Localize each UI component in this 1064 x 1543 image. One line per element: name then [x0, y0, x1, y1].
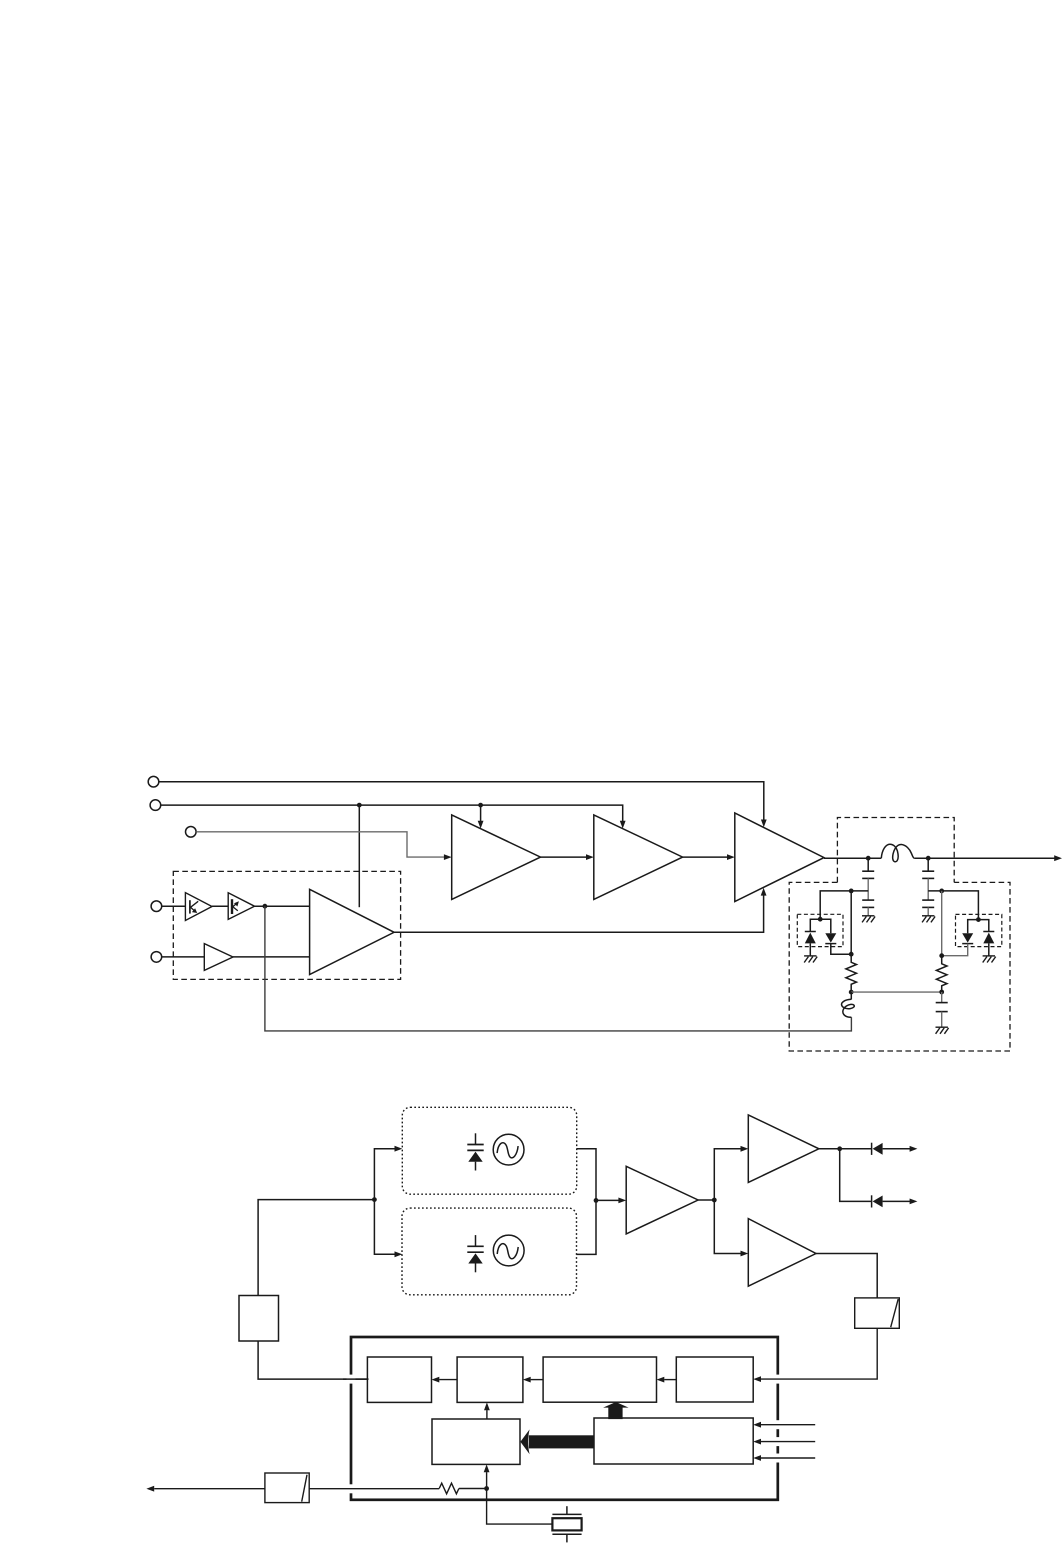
thick arrow F to E — [520, 1429, 594, 1454]
wire A4 out — [698, 1199, 714, 1201]
node N3 — [849, 889, 854, 894]
input lines into F — [753, 1422, 815, 1428]
amplifier A4 — [626, 1166, 698, 1234]
wire V1 to V2 — [212, 905, 228, 907]
wire J3 to amp M1 input — [196, 832, 451, 860]
variable amp V1 — [185, 893, 212, 921]
wire isolator2 to R3 to node — [309, 1488, 486, 1490]
arrow into amp M2 top — [620, 821, 626, 829]
diode pair top bus right — [968, 920, 989, 934]
wire J5 to V3 — [162, 956, 204, 958]
wire arrow into amp A4 — [596, 1198, 626, 1204]
ground G2 — [922, 916, 935, 923]
arrow C to B — [523, 1377, 543, 1383]
wire arrow into VCO1 — [374, 1146, 402, 1200]
diode pair dashed box DB2 — [956, 914, 1002, 946]
wire N7 down — [941, 891, 943, 956]
output arrow left — [146, 1486, 265, 1492]
terminal J3 — [186, 827, 197, 838]
wire N3 down — [850, 891, 852, 954]
block BPF (small box) — [239, 1296, 279, 1342]
terminal J5 — [151, 952, 162, 963]
preamp dashed box — [173, 871, 400, 979]
wire into block A (redrawn over gap) — [343, 1378, 369, 1380]
node N9a — [939, 953, 944, 958]
ground G3 — [804, 956, 817, 963]
resistor R3 — [439, 1483, 459, 1494]
amplifier A5 — [748, 1115, 819, 1183]
arrow E to B — [484, 1402, 490, 1419]
terminal J2 — [150, 800, 161, 811]
node N12 — [712, 1198, 717, 1203]
LPF dashed box — [837, 818, 954, 883]
block C — [543, 1357, 656, 1402]
resistor R1 — [846, 954, 857, 992]
arrow D to C — [657, 1377, 677, 1383]
border gaps (wire crossings) — [347, 1375, 783, 1494]
wire V3 to U1 lower input — [233, 956, 310, 958]
wire A5 out — [819, 1148, 872, 1150]
node N11 — [594, 1198, 599, 1203]
varactor VC2 — [467, 1235, 483, 1272]
wire arrow into amp A6 — [714, 1200, 748, 1256]
wire A6 to isolator — [816, 1254, 877, 1298]
wire N13 down — [840, 1149, 872, 1202]
summing amp U1 — [310, 889, 395, 974]
capacitor chain C2a/C2b right — [922, 858, 934, 916]
PLL IC thick box — [351, 1337, 778, 1500]
wire arrow into amp A5 — [714, 1146, 748, 1200]
wire J1 to amp M3 gain input — [159, 782, 767, 828]
arrow into E bottom — [484, 1464, 490, 1488]
node N8 — [976, 917, 981, 922]
block A — [367, 1357, 431, 1402]
diode D3 (down) — [942, 933, 974, 956]
node N9 — [939, 990, 944, 995]
capacitor chain C1a/C1b left — [862, 858, 874, 916]
diode D1 (up) — [805, 932, 816, 956]
ground G5 — [936, 1027, 949, 1034]
node on AGC line at x359 — [357, 803, 362, 808]
diode D6 output — [872, 1195, 918, 1207]
feedback wire from node to coil L2 — [265, 906, 852, 1031]
wire VCO1 out — [577, 1149, 596, 1201]
wire M2 to M3 with arrow — [683, 854, 735, 860]
block F — [594, 1418, 753, 1464]
wire arrow into VCO2 — [374, 1200, 402, 1258]
ground G4 — [983, 956, 996, 963]
wire node to amp U1 top — [358, 805, 360, 907]
isolator ISO1 — [855, 1298, 900, 1328]
wire N6 to N9 — [851, 991, 942, 993]
node on AGC line at x480 — [478, 803, 483, 808]
inductor L2 (vertical coil) — [842, 999, 855, 1017]
block D — [676, 1357, 753, 1402]
node N5 — [849, 952, 854, 957]
VCO2 dotted box — [402, 1208, 577, 1295]
amplifier M2 — [594, 815, 683, 900]
wire U1 output to M3 bottom arrow — [394, 888, 766, 933]
resistor R2 — [936, 956, 947, 992]
node N14 — [484, 1486, 489, 1491]
node N13 — [837, 1146, 842, 1151]
varactor VC1 — [467, 1133, 483, 1170]
diode D4 (up) — [983, 932, 994, 956]
wire M1 to M2 with arrow — [541, 854, 594, 860]
node N10 splitter — [372, 1197, 377, 1202]
ground G1 — [862, 916, 875, 923]
limiter dashed box — [789, 882, 1010, 1051]
amp V3 — [204, 944, 233, 971]
wire J2 AGC line — [161, 805, 623, 821]
wire isolator to block D — [753, 1328, 877, 1382]
amplifier M1 — [452, 815, 541, 900]
oscillator OSC1 — [493, 1134, 524, 1165]
node N4 — [818, 917, 823, 922]
block E — [432, 1419, 520, 1464]
wire J4 to V1 — [162, 905, 186, 907]
node N1 — [866, 856, 871, 861]
diode D2 (down) — [825, 933, 851, 954]
node N2 — [926, 856, 931, 861]
diode pair top bus — [810, 919, 831, 933]
oscillator OSC2 — [493, 1235, 524, 1266]
node N7 — [939, 889, 944, 894]
block B — [457, 1357, 523, 1402]
wire node to crystal — [487, 1489, 553, 1525]
terminal J4 — [151, 901, 162, 912]
amplifier M3 — [735, 813, 824, 902]
node after V2 — [263, 904, 268, 909]
wire left tap to diode pair — [820, 891, 868, 919]
wire N6 to L2 — [850, 992, 852, 999]
wire VCO2 out — [577, 1200, 597, 1254]
crystal X1 — [552, 1506, 581, 1542]
wire V2 to U1 upper input — [255, 905, 310, 907]
wire to VCO splitter — [258, 1200, 374, 1296]
node N6 — [849, 990, 854, 995]
arrow into amp M1 top — [478, 805, 484, 829]
variable amp V2 — [228, 893, 254, 920]
wire right tap to diode pair — [928, 891, 978, 920]
capacitor C3 — [936, 992, 948, 1027]
isolator ISO2 — [265, 1473, 309, 1503]
diode pair dashed box DB1 — [797, 914, 843, 946]
diode D5 output — [872, 1143, 918, 1155]
amplifier A6 — [748, 1219, 816, 1287]
output line with arrow — [824, 855, 1062, 861]
VCO1 dotted box — [402, 1107, 576, 1194]
wire BPF to PLL box A — [258, 1341, 368, 1379]
arrow B to A — [432, 1377, 458, 1383]
thick arrow F to C — [603, 1402, 629, 1419]
terminal J1 — [148, 776, 159, 787]
inductor L1 — [881, 844, 914, 862]
